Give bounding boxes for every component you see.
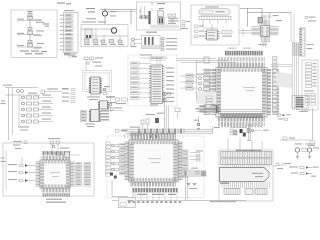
resistor R33 (196, 172, 199, 175)
label text (150, 104, 158, 105)
transformer T2 winding c (152, 37, 154, 47)
transistor Q8 dark (114, 176, 117, 179)
pins row bottom (221, 182, 223, 188)
bottom text row under U6 (128, 201, 236, 203)
connector cells bottom group 1 (224, 188, 240, 194)
wire data bus (126, 132, 213, 134)
input row 3 with diode (8, 179, 36, 182)
transistor Q11 (306, 143, 320, 156)
transistor Q13 pair (17, 90, 24, 93)
label text (189, 188, 197, 189)
crystal module box (119, 198, 136, 208)
capacitor C14 (273, 15, 283, 21)
label text (28, 93, 37, 94)
wire (227, 138, 229, 152)
transistor Q2 (194, 117, 200, 126)
wire (196, 60, 198, 100)
section box: clock oscillator (137, 2, 181, 30)
wire bus (248, 12, 292, 14)
wire (225, 20, 227, 23)
IC U11 small QFP (252, 20, 279, 43)
wire (5, 94, 40, 96)
resistor R24 (199, 105, 206, 107)
power entry row 2 (291, 172, 316, 177)
transformer T2 winding a (144, 37, 146, 47)
section box: DC-DC converter (81, 25, 128, 47)
wire (139, 10, 141, 14)
resistor R37 (302, 149, 306, 152)
label text title (146, 32, 157, 33)
wire (135, 192, 177, 200)
optocoupler row 4 (22, 113, 54, 118)
wire (95, 29, 97, 39)
wire bus (108, 11, 137, 13)
inductor L1 toroid (111, 28, 116, 33)
wire (151, 2, 153, 5)
wire (85, 60, 87, 71)
resistor R5 row (161, 45, 177, 47)
transformer T2 winding b (148, 37, 150, 47)
wire (168, 106, 170, 129)
wire (112, 200, 246, 202)
section box: power input stage (11, 10, 57, 57)
address cells left of U10 (81, 111, 87, 122)
resistor array RN2 (305, 94, 316, 106)
surge arrester stack 1 (17, 11, 44, 23)
ground (187, 184, 191, 186)
wire bundle shading (196, 92, 216, 104)
oscillator Y2 (199, 82, 213, 85)
wire pair (217, 105, 219, 113)
IC U5 buffer (149, 65, 165, 104)
section box: inverter (142, 36, 161, 49)
net label cluster (196, 108, 215, 112)
wire (248, 124, 250, 139)
module MOD1 shielded (199, 9, 230, 15)
pull-up resistor R27 (180, 80, 197, 84)
label text above (82, 21, 106, 22)
resistor network RN1 (306, 63, 317, 88)
optocoupler row 2 (22, 101, 54, 106)
crystal X1 (258, 18, 263, 24)
capacitor C19 (175, 108, 180, 118)
wire (212, 126, 214, 133)
ground (308, 157, 311, 159)
wire bus vertical (292, 42, 299, 110)
resistor R2 (118, 40, 124, 45)
input row 1 with diode (8, 164, 36, 167)
pins row (221, 165, 223, 168)
label text (140, 54, 152, 55)
wire (202, 20, 204, 26)
resistor R40 (251, 129, 269, 131)
wire (209, 20, 211, 24)
led DL1 row (278, 114, 291, 117)
transistor Q5 (163, 92, 166, 103)
IC U12 flash memory (220, 168, 270, 182)
wire (190, 155, 200, 157)
wire (239, 138, 241, 152)
wire (144, 6, 146, 16)
oscillator Y1 (196, 74, 212, 80)
wire (156, 58, 158, 65)
wire (127, 133, 129, 138)
capacitor C22 in keypad section (55, 148, 80, 158)
connector cells column (106, 142, 111, 176)
ground plane shading (142, 45, 160, 48)
resistor R42 (173, 14, 176, 17)
capacitor C6 (144, 16, 147, 19)
label text (196, 108, 199, 109)
label cells top of U7 (43, 151, 71, 155)
series resistor row R10-R23 (221, 114, 262, 127)
label text (48, 138, 60, 139)
wire (242, 28, 244, 36)
capacitor C2 (84, 39, 90, 45)
net rows right (62, 89, 75, 103)
wire (92, 35, 128, 37)
wire (18, 94, 20, 126)
section box: memory interface (302, 60, 318, 110)
wire (111, 180, 113, 197)
connector cells bottom group 2 (245, 188, 253, 194)
IC U9 op-amp DIP (98, 101, 109, 109)
resistor R38 (280, 137, 313, 140)
ground (197, 128, 200, 130)
pin net labels bottom of U4 (217, 122, 220, 126)
net label (214, 127, 220, 128)
surge arrester stack 3 (17, 41, 44, 49)
net label (191, 168, 198, 169)
resistor R9 (195, 35, 205, 38)
resistor R8 (195, 30, 205, 33)
wire vertical main node (29, 12, 31, 48)
net label top (86, 8, 95, 13)
oscillator Y3 (199, 87, 213, 90)
optocoupler row 3 (22, 107, 54, 112)
resistor R7 (195, 25, 205, 28)
wire (5, 150, 7, 190)
capacitor C10 (182, 21, 190, 24)
input row 2 with diode (8, 171, 36, 174)
net cells right of U7 col1 (76, 163, 82, 187)
wire (104, 8, 106, 11)
section box: RF module (191, 5, 239, 45)
capacitor C4 (109, 40, 116, 46)
net labels right of U10 (99, 110, 109, 121)
resistor R43 (131, 42, 134, 45)
wire (230, 127, 247, 129)
ground plane shading (150, 25, 179, 29)
label text (3, 85, 12, 86)
wire (112, 196, 128, 198)
label text title (205, 6, 219, 7)
ribbon cable shading (184, 170, 206, 176)
wire (111, 29, 113, 33)
transistor Q6 (163, 93, 171, 102)
wire (164, 102, 166, 129)
led DL2 row (279, 118, 288, 120)
capacitor C7 (171, 20, 174, 23)
label text (110, 102, 117, 103)
filter parts rows (111, 144, 118, 170)
capacitor array right of U4 (273, 57, 278, 112)
wire (203, 27, 218, 29)
wire (130, 10, 132, 25)
wire (261, 8, 263, 18)
capacitor C5 (140, 16, 143, 19)
wire (8, 88, 10, 141)
wire bus (196, 110, 262, 112)
connector J1 terminal strip (60, 13, 79, 53)
pin labels top of U11 (261, 15, 264, 18)
capacitor C17 (150, 135, 153, 138)
termination resistor row (138, 129, 185, 134)
wire (57, 144, 59, 156)
wire (159, 58, 161, 65)
bias parts cluster (106, 96, 128, 112)
capacitor C21 pair (130, 133, 141, 139)
section box: LCD controller (107, 136, 204, 198)
wire (217, 20, 219, 24)
IC U6 graphics controller QFP (125, 136, 183, 187)
wire (211, 24, 213, 30)
transformer T1 (85, 29, 92, 38)
wire (249, 124, 251, 139)
wire (271, 66, 292, 68)
diode D6 (247, 129, 250, 133)
capacitor C23 (308, 141, 315, 146)
wire bus (176, 60, 228, 62)
diode D7 bridge (87, 62, 103, 67)
wire (140, 57, 168, 59)
resistor R25 (199, 109, 206, 111)
capacitor C12 (222, 31, 226, 34)
oscillator module Y4 (158, 8, 164, 17)
resistor R34 (41, 88, 68, 94)
label text rows (20, 51, 47, 55)
wire (251, 141, 253, 152)
section box: flash module (219, 150, 273, 201)
label header (150, 57, 165, 61)
surge arrester stack 2 (17, 28, 44, 36)
resistor R32 (197, 159, 201, 162)
wire bundle shading (293, 42, 300, 57)
IC U2 oscillator driver (158, 17, 164, 24)
IC U3 driver (205, 30, 220, 40)
label marks (247, 140, 251, 141)
wire (271, 64, 292, 66)
capacitor C3 (93, 39, 99, 45)
connector J4 box (292, 96, 308, 109)
resistor R41 (168, 14, 171, 17)
decoupling caps below U6 (133, 188, 178, 192)
wire bus (181, 62, 236, 64)
label text (222, 36, 232, 37)
wire (185, 177, 187, 201)
ground (193, 184, 197, 186)
label text (146, 113, 164, 116)
wire (197, 61, 204, 63)
transistor Q9 (103, 86, 110, 95)
connector row A (221, 152, 272, 158)
label text (18, 126, 29, 130)
resistor R35 (116, 130, 128, 133)
wire (265, 43, 267, 48)
transistor Q3 dark (240, 129, 243, 133)
label text (304, 90, 314, 91)
jumper JP1 below J1 (64, 54, 76, 58)
label text (131, 46, 137, 47)
wire data bus (122, 128, 213, 130)
wire (51, 144, 53, 156)
wire (132, 191, 134, 198)
decoupling capacitor bank (225, 48, 263, 56)
net cells right of U7 col2 (84, 163, 91, 187)
wire (239, 30, 252, 32)
IC U4 main processor QFP (212, 63, 271, 122)
ferrite FB1 dark (155, 118, 159, 123)
wire (124, 133, 126, 138)
capacitor C24 pair (230, 129, 233, 135)
label text power (86, 18, 96, 19)
label marks (43, 23, 49, 26)
wire (261, 141, 263, 152)
resistor R30 (146, 119, 149, 129)
IC U8 codec DIP (89, 77, 102, 94)
wire (290, 13, 292, 43)
wire (269, 13, 271, 19)
wire (151, 8, 153, 11)
resistor R6 row (161, 48, 177, 50)
net labels (64, 53, 77, 57)
wire (166, 106, 168, 129)
resistor R31 (196, 150, 203, 157)
reset circuit parts (50, 141, 60, 148)
transistor Q12 (132, 38, 135, 41)
label text (85, 123, 95, 127)
transistor Q10 (295, 143, 303, 156)
wire bus (176, 58, 216, 60)
wire (104, 16, 106, 24)
wire (21, 157, 23, 164)
pull-up resistor R28 (180, 86, 197, 90)
pin net labels top of U4 (217, 57, 220, 61)
resistor R29 (141, 120, 144, 129)
optocoupler row 5 (22, 119, 54, 124)
wire (103, 36, 105, 40)
IC U7 keypad controller QFP (36, 156, 75, 193)
label text (130, 127, 140, 128)
capacitor C20 pair (84, 57, 103, 60)
net label (305, 17, 316, 22)
wire (90, 60, 92, 62)
label text title (157, 3, 165, 4)
optocoupler row 1 (22, 95, 54, 100)
label text (181, 28, 188, 29)
shield box nested (83, 71, 112, 92)
capacitor C15 (204, 57, 209, 63)
label text (137, 194, 176, 195)
connector J2 header strip (199, 16, 231, 19)
net labels (307, 44, 314, 49)
wire (262, 43, 264, 48)
net labels right of U5 (166, 68, 174, 103)
diode D5 (234, 130, 238, 135)
wire (220, 32, 223, 34)
label text (220, 183, 229, 184)
wire (134, 43, 141, 45)
wire (81, 28, 111, 30)
wire (312, 108, 314, 140)
wire (135, 39, 142, 41)
net labels (168, 18, 179, 24)
wire (247, 8, 249, 27)
label text (299, 111, 308, 112)
input cells left of U6 (120, 144, 128, 175)
capacitor C11 (182, 25, 185, 28)
wire (5, 87, 38, 89)
wire (187, 177, 189, 200)
wire (140, 6, 142, 16)
capacitor C13 (228, 31, 232, 34)
capacitor C16 (211, 105, 215, 111)
resistor R36 (273, 162, 291, 169)
capacitor C18 (155, 135, 158, 138)
wire (190, 159, 200, 161)
label J1 (64, 10, 74, 11)
transistor Q4 dark (243, 133, 246, 137)
ground (296, 157, 299, 159)
connector J3 pin header (300, 28, 305, 56)
label cells bottom of U7 (43, 193, 71, 197)
crystal X2 dark (148, 11, 150, 24)
wire bundle shading (276, 72, 292, 88)
wire data bus (122, 130, 213, 132)
input protection cells column (131, 62, 152, 99)
net labels far left (1, 100, 6, 104)
resistor R3 row (161, 38, 177, 40)
pin net labels right of U4 (272, 69, 279, 115)
transistor Q1 (102, 11, 116, 17)
pin net labels left of U4 (204, 69, 212, 115)
wire bus (205, 108, 262, 110)
wire (119, 36, 121, 40)
power entry row 1 (289, 166, 319, 169)
connector cells bottom group 3 (255, 188, 267, 194)
title text top (57, 3, 71, 5)
wire (240, 8, 262, 10)
pin net labels top of U6 (130, 133, 133, 136)
wire (12, 88, 14, 136)
resistor R1 (101, 40, 107, 45)
IC U10 eeprom DIP (89, 110, 101, 122)
wire (293, 14, 295, 42)
strap cells column (206, 96, 212, 107)
label text below U7 (46, 199, 66, 203)
label text below U8 (87, 96, 100, 100)
label text (259, 44, 267, 45)
wire (296, 109, 310, 111)
output cells right of U6 (182, 150, 189, 178)
transistor Q7 dark (110, 173, 113, 176)
wire bus (100, 9, 137, 11)
pull-up resistor R26 (180, 74, 197, 78)
section box: keypad interface (3, 143, 94, 196)
resistor R4 row (161, 41, 177, 43)
connector row B (221, 159, 272, 165)
wire (239, 32, 252, 34)
